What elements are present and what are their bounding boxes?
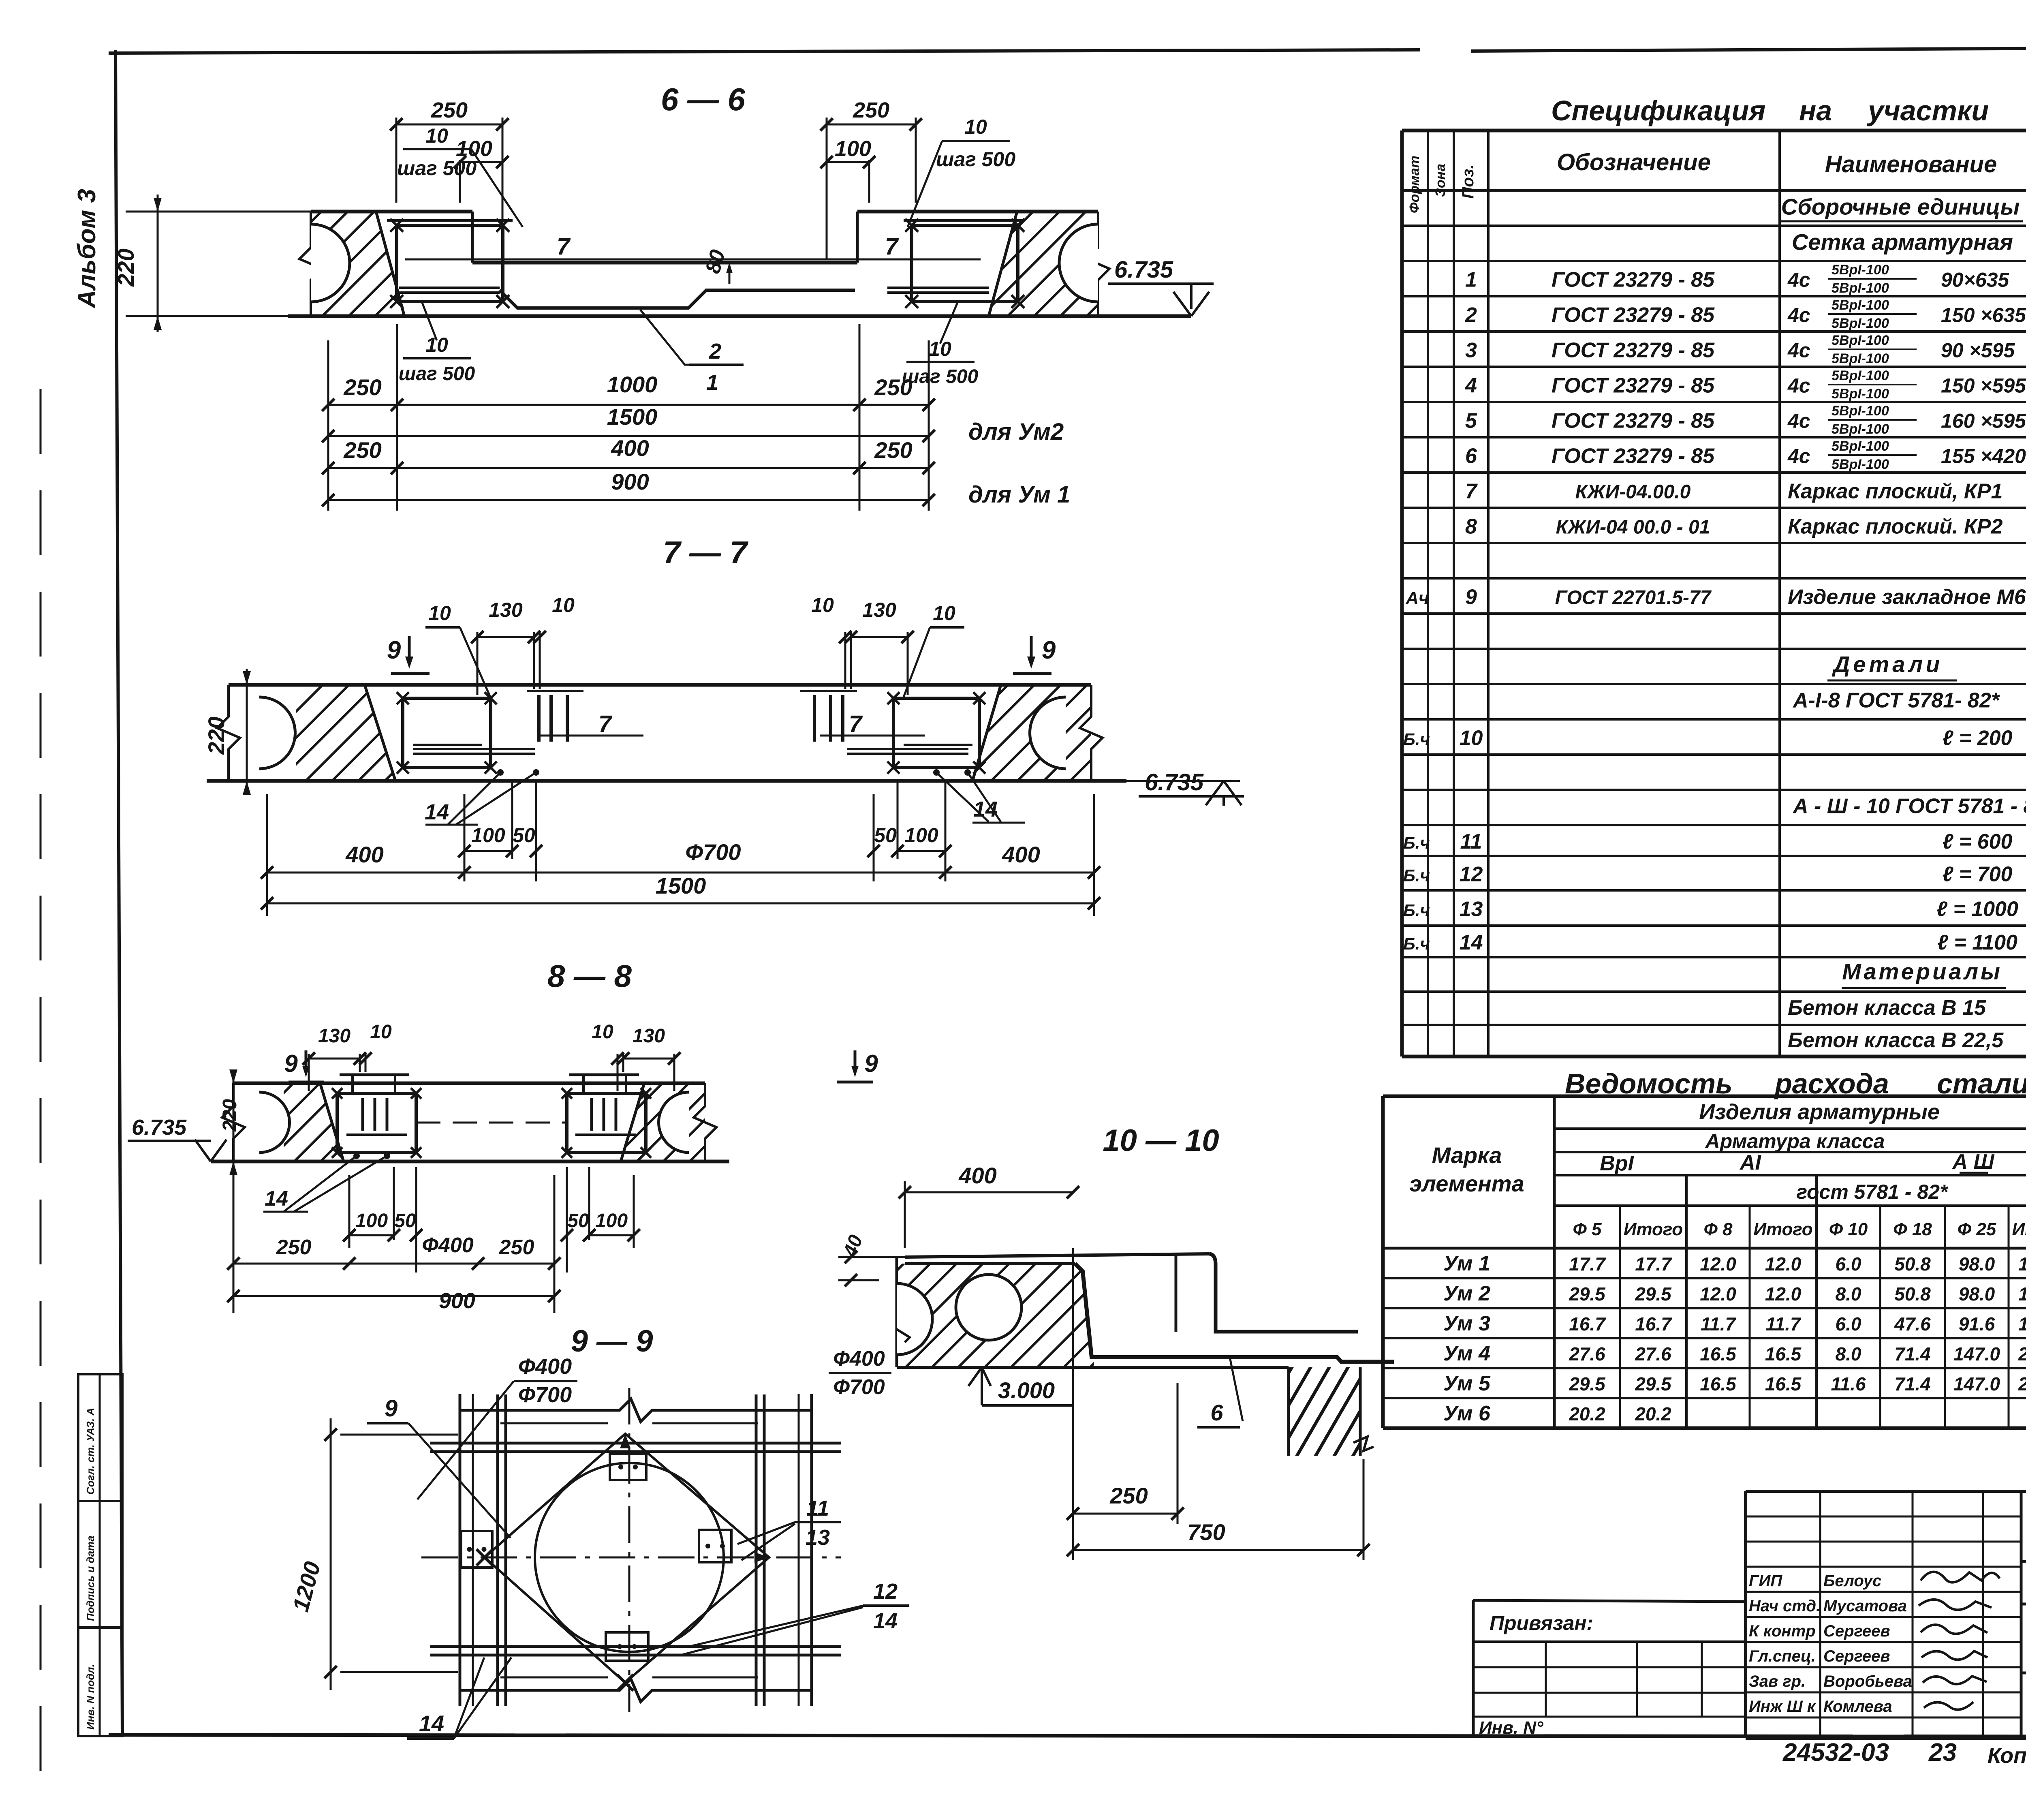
svg-text:16.5: 16.5 [1700,1343,1737,1364]
svg-text:Привязан:: Привязан: [1490,1612,1593,1634]
svg-text:Инж Ш к: Инж Ш к [1749,1698,1816,1715]
svg-text:Материалы: Материалы [1842,959,2002,984]
border frame [109,50,1420,53]
svg-text:154.8: 154.8 [2018,1253,2026,1275]
svg-text:Б.ч: Б.ч [1403,730,1430,749]
svg-text:13: 13 [1460,898,1483,921]
svg-text:ВрI: ВрI [1600,1152,1634,1175]
svg-text:5ВрI-100: 5ВрI-100 [1832,368,1889,383]
svg-text:7: 7 [598,711,613,737]
svg-text:7: 7 [557,233,571,260]
svg-text:250: 250 [343,374,381,400]
svg-text:6.735: 6.735 [1145,769,1204,796]
svg-text:24532-03: 24532-03 [1782,1739,1889,1767]
svg-text:Согл. ст. УАЗ. А: Согл. ст. УАЗ. А [84,1408,96,1495]
svg-text:Ум 4: Ум 4 [1443,1342,1490,1365]
dimensions 250,100 top-right (6-6) [915,118,917,203]
svg-text:6: 6 [1210,1400,1223,1425]
dimension 220 and elevation (8-8) [233,1070,235,1175]
svg-text:5: 5 [1465,409,1477,433]
svg-text:10: 10 [1460,727,1483,750]
svg-text:12: 12 [873,1579,898,1604]
svg-text:130: 130 [633,1025,665,1047]
svg-text:9: 9 [387,636,401,664]
svg-text:8.0: 8.0 [1836,1343,1861,1364]
svg-text:250: 250 [874,437,912,463]
svg-text:6: 6 [1465,445,1477,468]
svg-text:5ВрI-100: 5ВрI-100 [1832,438,1889,454]
steel table grid [1383,1095,2026,1098]
svg-text:5ВрI-100: 5ВрI-100 [1832,351,1889,366]
svg-text:участки: участки [1867,95,1989,126]
svg-text:14: 14 [425,800,449,824]
svg-text:220: 220 [219,1099,241,1132]
svg-text:4с: 4с [1787,410,1810,432]
svg-text:400: 400 [958,1163,996,1188]
dimensions 250, 750 (10-10) [1072,1248,1074,1560]
svg-text:Ум 1: Ум 1 [1443,1252,1490,1275]
svg-text:98.0: 98.0 [1959,1283,1995,1305]
svg-text:130: 130 [318,1025,350,1047]
dim 1500 (7-7) [267,903,1094,905]
section 7-7 stirrups pos9 right [800,690,857,692]
bottom dimensions (6-6) [327,340,329,511]
svg-text:10: 10 [933,602,955,624]
svg-text:147.0: 147.0 [1953,1373,2000,1394]
svg-text:Каркас плоский. КР2: Каркас плоский. КР2 [1788,515,2002,539]
svg-text:16.7: 16.7 [1635,1313,1672,1335]
svg-text:Нач стд.: Нач стд. [1749,1597,1821,1615]
svg-text:8.0: 8.0 [1836,1283,1861,1305]
svg-text:Ф700: Ф700 [685,839,741,865]
svg-text:Гл.спец.: Гл.спец. [1749,1647,1816,1665]
svg-text:А Ш: А Ш [1952,1150,1995,1174]
svg-text:90×635: 90×635 [1941,269,2009,291]
svg-text:Сергеев: Сергеев [1823,1647,1890,1665]
section 6-6 rebar frame KP1 right [912,225,1018,302]
svg-text:5ВрI-100: 5ВрI-100 [1832,421,1889,437]
svg-text:Арматура класса: Арматура класса [1705,1130,1885,1153]
svg-text:элемента: элемента [1409,1171,1524,1196]
svg-text:29.5: 29.5 [1569,1373,1606,1394]
svg-text:К контр: К контр [1749,1622,1816,1640]
svg-text:Поз.: Поз. [1459,165,1477,199]
svg-text:71.4: 71.4 [1894,1343,1931,1364]
svg-text:Ач: Ач [1405,588,1429,608]
svg-text:23: 23 [1928,1739,1957,1767]
svg-text:Б.ч: Б.ч [1403,833,1430,852]
svg-text:ГОСТ 23279 - 85: ГОСТ 23279 - 85 [1552,339,1715,362]
svg-text:29.5: 29.5 [1635,1373,1672,1394]
svg-text:шаг 500: шаг 500 [902,366,979,387]
dimension 40 (10-10) [838,1256,907,1258]
svg-text:220: 220 [203,716,229,755]
svg-text:1: 1 [1465,268,1477,292]
dimension 1200 (9-9) [340,1434,458,1436]
section 6-6 left wall block with hatch [311,212,404,316]
svg-text:17.7: 17.7 [1635,1253,1672,1275]
svg-text:100: 100 [595,1210,628,1232]
svg-text:10: 10 [425,334,448,356]
svg-text:14: 14 [973,797,998,821]
svg-text:150 ×635: 150 ×635 [1941,304,2026,327]
svg-text:50: 50 [874,824,897,847]
svg-text:Итого: Итого [2012,1219,2026,1239]
section 8-8 rebar frame right [567,1093,646,1153]
svg-text:17.7: 17.7 [1569,1253,1606,1275]
svg-text:9 — 9: 9 — 9 [571,1324,653,1358]
svg-text:750: 750 [1187,1519,1225,1545]
section 10-10 floor profile [905,1254,1210,1257]
svg-text:Итого: Итого [1753,1219,1812,1239]
svg-text:Б.ч: Б.ч [1403,866,1430,885]
svg-text:4с: 4с [1787,269,1810,291]
svg-text:9: 9 [1465,586,1477,609]
section 6-6 rebar frame KP1 left [397,225,503,302]
svg-text:10 — 10: 10 — 10 [1103,1123,1219,1158]
section 7-7 rebar frame left [403,698,491,768]
svg-text:Альбом 3: Альбом 3 [73,189,101,309]
svg-text:ℓ = 1000: ℓ = 1000 [1936,898,2018,921]
svg-text:АI: АI [1739,1151,1762,1174]
svg-text:29.5: 29.5 [1635,1283,1672,1305]
section 8-8 top plates [340,1074,409,1076]
svg-text:4с: 4с [1787,304,1810,327]
section 7-7 slab outline [229,683,1091,687]
svg-text:КЖИ-04.00.0: КЖИ-04.00.0 [1575,481,1691,503]
svg-text:5ВрI-100: 5ВрI-100 [1832,280,1889,296]
svg-text:98.0: 98.0 [1959,1253,1995,1275]
svg-text:ГОСТ 23279 - 85: ГОСТ 23279 - 85 [1552,304,1715,327]
svg-text:9: 9 [864,1050,878,1077]
svg-text:Мусатова: Мусатова [1823,1597,1907,1615]
svg-text:ГОСТ 23279 - 85: ГОСТ 23279 - 85 [1552,268,1715,292]
svg-text:4с: 4с [1787,339,1810,362]
svg-text:2: 2 [709,339,721,364]
top dims right (7-7) [850,632,852,689]
svg-text:10: 10 [811,594,834,616]
svg-text:4с: 4с [1787,445,1810,468]
svg-text:3.000: 3.000 [998,1377,1055,1403]
section 8-8 right wall block [621,1083,705,1161]
svg-text:ГОСТ 22701.5-77: ГОСТ 22701.5-77 [1555,587,1712,609]
svg-text:2: 2 [1465,304,1477,327]
top dims (8-8) [308,1054,310,1091]
svg-text:Наименование: Наименование [1825,151,1997,178]
svg-text:12.0: 12.0 [1765,1253,1802,1275]
svg-text:на: на [1799,95,1832,126]
svg-text:6.0: 6.0 [1836,1253,1861,1275]
dims 250, d400, 250, 900 (8-8) [233,1175,235,1313]
svg-text:Спецификация: Спецификация [1551,95,1765,126]
svg-text:14: 14 [265,1187,288,1210]
section 9-9 column outline [460,1399,812,1422]
svg-text:Инв. N°: Инв. N° [1479,1718,1543,1738]
svg-text:16.5: 16.5 [1765,1373,1802,1394]
signatures [1921,1572,2000,1583]
svg-text:Ф400: Ф400 [518,1354,572,1379]
dimension 400 (10-10) [904,1181,906,1248]
section 6-6 bent mesh pos 1,2 [399,288,500,293]
svg-text:155 ×420: 155 ×420 [1941,445,2026,468]
svg-text:Ф700: Ф700 [518,1383,572,1407]
privyazan block [1473,1640,1746,1643]
svg-text:11.7: 11.7 [1701,1313,1737,1335]
svg-text:400: 400 [345,842,383,867]
svg-text:ℓ = 700: ℓ = 700 [1943,863,2013,886]
svg-text:250: 250 [431,98,468,122]
top dims left (7-7) [477,632,479,695]
svg-text:7: 7 [885,233,899,260]
svg-text:Каркас плоский, КР1: Каркас плоский, КР1 [1788,480,2002,503]
svg-text:Изделие закладное М6: Изделие закладное М6 [1788,586,2026,609]
svg-text:10: 10 [552,594,575,616]
svg-text:50: 50 [567,1210,589,1232]
svg-text:27.6: 27.6 [1635,1343,1671,1364]
svg-text:1000: 1000 [607,372,658,397]
svg-text:90 ×595: 90 ×595 [1941,339,2015,362]
svg-text:400: 400 [611,435,649,461]
section 9-9 plates M6 [610,1454,646,1480]
section 7-7 left wall block [296,685,395,781]
svg-text:14: 14 [419,1711,444,1736]
svg-text:ГОСТ 23279 - 85: ГОСТ 23279 - 85 [1552,409,1715,433]
section 9-9 diamond [485,1434,769,1683]
svg-text:5ВрI-100: 5ВрI-100 [1832,262,1889,278]
svg-text:220: 220 [113,248,139,287]
svg-text:Ф 10: Ф 10 [1829,1219,1868,1239]
svg-text:160 ×595: 160 ×595 [1941,410,2026,432]
svg-text:130: 130 [862,599,896,621]
svg-text:8: 8 [1465,515,1477,539]
margin stamp boxes [78,1374,122,1501]
svg-text:А - Ш - 10 ГОСТ 5781 - 82*: А - Ш - 10 ГОСТ 5781 - 82* [1792,795,2026,818]
svg-text:Ум 3: Ум 3 [1443,1312,1490,1335]
svg-text:900: 900 [611,469,649,494]
svg-text:8 — 8: 8 — 8 [547,958,632,994]
svg-text:11.7: 11.7 [1765,1313,1802,1335]
title block outline [1472,1600,1475,1738]
svg-text:5ВрI-100: 5ВрI-100 [1832,457,1889,472]
svg-text:16.5: 16.5 [1765,1343,1802,1364]
svg-text:Ум 5: Ум 5 [1443,1372,1491,1395]
svg-text:250: 250 [276,1236,312,1259]
section 7-7 rebar frame right [893,698,979,768]
svg-text:Ф 18: Ф 18 [1893,1219,1932,1239]
svg-text:7: 7 [849,711,863,737]
section 9-9 circle d700 [535,1463,724,1652]
svg-text:50.8: 50.8 [1894,1253,1931,1275]
svg-text:ℓ = 1100: ℓ = 1100 [1937,931,2017,954]
svg-text:Сетка арматурная: Сетка арматурная [1792,229,2013,255]
svg-text:4: 4 [1465,374,1477,398]
staff table [1746,1516,2021,1518]
svg-text:Бетон класса В 22,5: Бетон класса В 22,5 [1788,1029,2004,1052]
section 9-9 centre lines [421,1557,841,1559]
section 8-8 left wall block [284,1083,344,1161]
svg-text:Подпись и дата: Подпись и дата [84,1536,96,1621]
svg-text:16.5: 16.5 [1700,1373,1737,1394]
svg-text:для Ум 1: для Ум 1 [968,481,1070,508]
svg-text:71.4: 71.4 [1894,1373,1931,1394]
svg-text:Ф700: Ф700 [833,1375,885,1399]
svg-text:Бетон класса В 15: Бетон класса В 15 [1788,996,1986,1020]
specification table grid [1402,129,2026,133]
svg-text:16.7: 16.7 [1569,1313,1606,1335]
dimension 220 (6-6) [126,211,311,213]
svg-text:145.2: 145.2 [2018,1313,2026,1335]
svg-text:6.735: 6.735 [132,1115,187,1140]
section 6-6 slab outline [311,210,472,214]
svg-text:Копировал. Максимова: Копировал. Максимова [1988,1743,2026,1768]
svg-text:Ф400: Ф400 [833,1347,885,1371]
svg-text:Зав гр.: Зав гр. [1749,1672,1806,1690]
svg-text:5ВрI-100: 5ВрI-100 [1832,403,1889,419]
svg-text:для Ум2: для Ум2 [968,419,1064,445]
svg-text:5ВрI-100: 5ВрI-100 [1832,386,1889,402]
svg-text:Формат: Формат [1407,156,1422,213]
svg-text:29.5: 29.5 [1569,1283,1606,1305]
svg-text:Ум 6: Ум 6 [1443,1402,1491,1425]
designation TP 503-3-27.90 KZh [2021,1560,2026,1563]
svg-text:230.0: 230.0 [2018,1373,2026,1394]
svg-text:50: 50 [394,1210,416,1232]
svg-text:Зона: Зона [1433,164,1448,197]
section 8-8 rebar frame left [337,1093,416,1153]
svg-text:10: 10 [370,1021,392,1043]
svg-text:1500: 1500 [656,873,706,898]
svg-text:5ВрI-100: 5ВрI-100 [1832,316,1889,331]
dims 100,50 (7-7 left) [464,794,466,881]
dims 50,100 (7-7 right) [873,794,875,881]
svg-text:20.2: 20.2 [1635,1403,1671,1424]
svg-text:250: 250 [499,1236,534,1259]
section 10-10 hollow slab block [897,1264,1094,1367]
svg-text:13: 13 [806,1525,830,1550]
svg-text:10: 10 [425,124,448,147]
svg-text:9: 9 [385,1395,398,1422]
dimension 220 (7-7) [246,669,248,794]
svg-text:4с: 4с [1787,374,1810,397]
svg-text:Б.ч: Б.ч [1403,934,1430,953]
svg-text:Инв. N подл.: Инв. N подл. [84,1664,96,1730]
svg-text:гост 5781 - 82*: гост 5781 - 82* [1797,1181,1949,1203]
dimensions 250,100 top-left (6-6) [395,118,398,203]
svg-text:6.0: 6.0 [1836,1313,1861,1335]
svg-text:Ф 25: Ф 25 [1958,1219,1996,1239]
svg-text:900: 900 [439,1289,475,1313]
elevation 3.000 (10-10) [968,1367,991,1386]
svg-text:ℓ = 200: ℓ = 200 [1943,727,2013,750]
dims 100,50 (8-8) [348,1175,350,1248]
svg-text:шаг 500: шаг 500 [936,148,1015,171]
svg-text:9: 9 [1042,636,1056,664]
svg-text:12.0: 12.0 [1700,1253,1736,1275]
svg-text:Комлева: Комлева [1823,1698,1892,1715]
svg-text:Изделия арматурные: Изделия арматурные [1699,1100,1940,1124]
svg-text:150 ×595: 150 ×595 [1941,374,2026,397]
svg-text:100: 100 [355,1210,388,1232]
svg-text:10: 10 [592,1021,613,1043]
svg-text:КЖИ-04 00.0 - 01: КЖИ-04 00.0 - 01 [1556,517,1710,538]
dims 400, d700, 400 (7-7) [266,794,268,916]
svg-text:250: 250 [874,374,912,400]
leader 14 left (7-7) [497,769,504,776]
svg-text:12.0: 12.0 [1765,1283,1802,1305]
svg-text:ℓ = 600: ℓ = 600 [1943,830,2013,853]
svg-text:147.0: 147.0 [1953,1343,2000,1364]
svg-text:7 — 7: 7 — 7 [663,535,749,570]
svg-text:7: 7 [1465,480,1478,503]
svg-text:100: 100 [471,824,505,847]
section 8-8 slab outline [233,1082,705,1085]
svg-text:100: 100 [835,137,871,161]
svg-text:Итого: Итого [1624,1219,1683,1239]
svg-text:12: 12 [1460,863,1483,886]
section 9-9 rebar lines [430,1442,841,1445]
svg-text:Ф400: Ф400 [422,1234,473,1257]
svg-text:20.2: 20.2 [1569,1403,1605,1424]
svg-text:100: 100 [904,824,938,847]
section 7-7 right wall block [972,685,1091,781]
svg-text:1: 1 [706,370,718,395]
svg-text:ГОСТ 23279 - 85: ГОСТ 23279 - 85 [1552,374,1715,398]
svg-text:250: 250 [343,437,381,463]
svg-text:5ВрI-100: 5ВрI-100 [1832,297,1889,313]
svg-text:Сборочные единицы: Сборочные единицы [1781,194,2020,220]
svg-text:12.0: 12.0 [1700,1283,1736,1305]
svg-text:Ф 5: Ф 5 [1573,1219,1602,1239]
svg-text:250: 250 [853,98,889,122]
svg-text:250: 250 [1109,1483,1148,1508]
svg-text:14: 14 [873,1609,898,1633]
svg-text:шаг 500: шаг 500 [397,157,477,180]
svg-text:9: 9 [284,1050,298,1077]
svg-text:10: 10 [428,602,451,624]
svg-text:226.4: 226.4 [2018,1343,2026,1364]
svg-text:ГОСТ 23279 - 85: ГОСТ 23279 - 85 [1552,445,1715,468]
svg-text:Воробьева: Воробьева [1823,1672,1912,1690]
svg-text:10: 10 [964,115,987,138]
svg-text:47.6: 47.6 [1894,1313,1931,1335]
section 10-10 lower wall block [1289,1367,1360,1456]
svg-text:6.735: 6.735 [1114,257,1173,283]
svg-text:91.6: 91.6 [1959,1313,1995,1335]
svg-text:27.6: 27.6 [1569,1343,1605,1364]
svg-text:1500: 1500 [607,404,658,430]
svg-text:14: 14 [1460,931,1483,954]
svg-text:400: 400 [1002,842,1040,867]
svg-text:11: 11 [1460,830,1482,853]
svg-text:154.8: 154.8 [2018,1283,2026,1305]
leader 14 right (7-7) [933,769,940,776]
section 9-9 vertex marks [620,1434,630,1448]
svg-text:А-I-8 ГОСТ 5781- 82*: А-I-8 ГОСТ 5781- 82* [1792,689,2000,712]
svg-text:Ф 8: Ф 8 [1703,1219,1733,1239]
leader 14 (8-8) [353,1153,360,1159]
svg-text:5ВрI-100: 5ВрI-100 [1832,333,1889,348]
svg-text:Детали: Детали [1832,652,1943,677]
svg-text:Б.ч: Б.ч [1403,901,1430,920]
svg-text:50: 50 [513,824,535,847]
section 7-7 stirrups pos9 left [527,690,583,692]
svg-text:3: 3 [1465,339,1477,362]
svg-text:Обозначение: Обозначение [1557,149,1711,175]
svg-text:11.6: 11.6 [1831,1373,1866,1394]
svg-text:11: 11 [806,1496,829,1521]
svg-text:Белоус: Белоус [1823,1572,1881,1590]
svg-text:6 — 6: 6 — 6 [661,81,746,117]
